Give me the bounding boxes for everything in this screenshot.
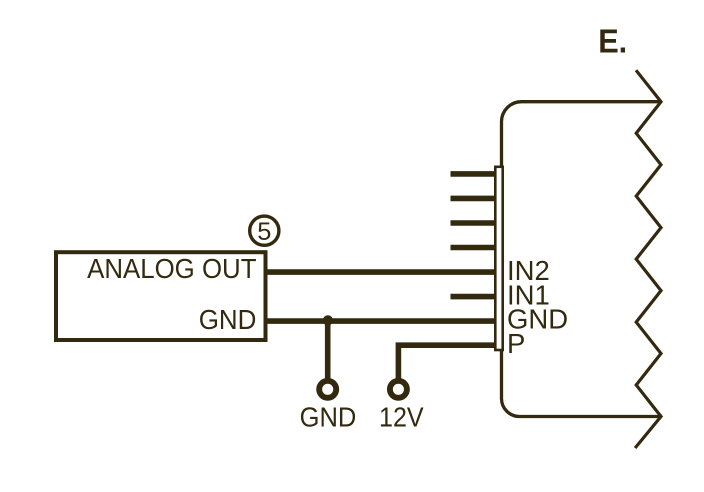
pin 2	[451, 196, 497, 202]
terminal GND	[319, 381, 336, 398]
wire GND net (box to connector)	[266, 318, 497, 324]
svg-text:ANALOG OUT: ANALOG OUT	[87, 253, 257, 284]
wire ANALOG OUT to IN2	[266, 269, 497, 275]
pin 1	[451, 171, 497, 177]
svg-text:GND: GND	[199, 304, 257, 335]
terminal 12V	[390, 381, 407, 398]
pin 3	[451, 220, 497, 226]
wire GND drop to terminal	[325, 321, 331, 380]
junction GND node	[323, 315, 333, 325]
pin 4	[451, 245, 497, 251]
svg-text:E.: E.	[598, 24, 627, 61]
module E torn edge zigzag	[635, 70, 661, 448]
connector bar	[495, 167, 502, 350]
svg-text:12V: 12V	[379, 402, 424, 433]
svg-text:5: 5	[257, 218, 271, 246]
wire 12V to pin P	[398, 345, 496, 380]
sensor box	[56, 252, 266, 340]
module E outline	[502, 102, 662, 417]
svg-text:P: P	[507, 328, 525, 359]
pin 6 IN1 stub	[451, 294, 497, 300]
callout circle 5	[250, 216, 279, 245]
svg-text:GND: GND	[300, 402, 357, 433]
